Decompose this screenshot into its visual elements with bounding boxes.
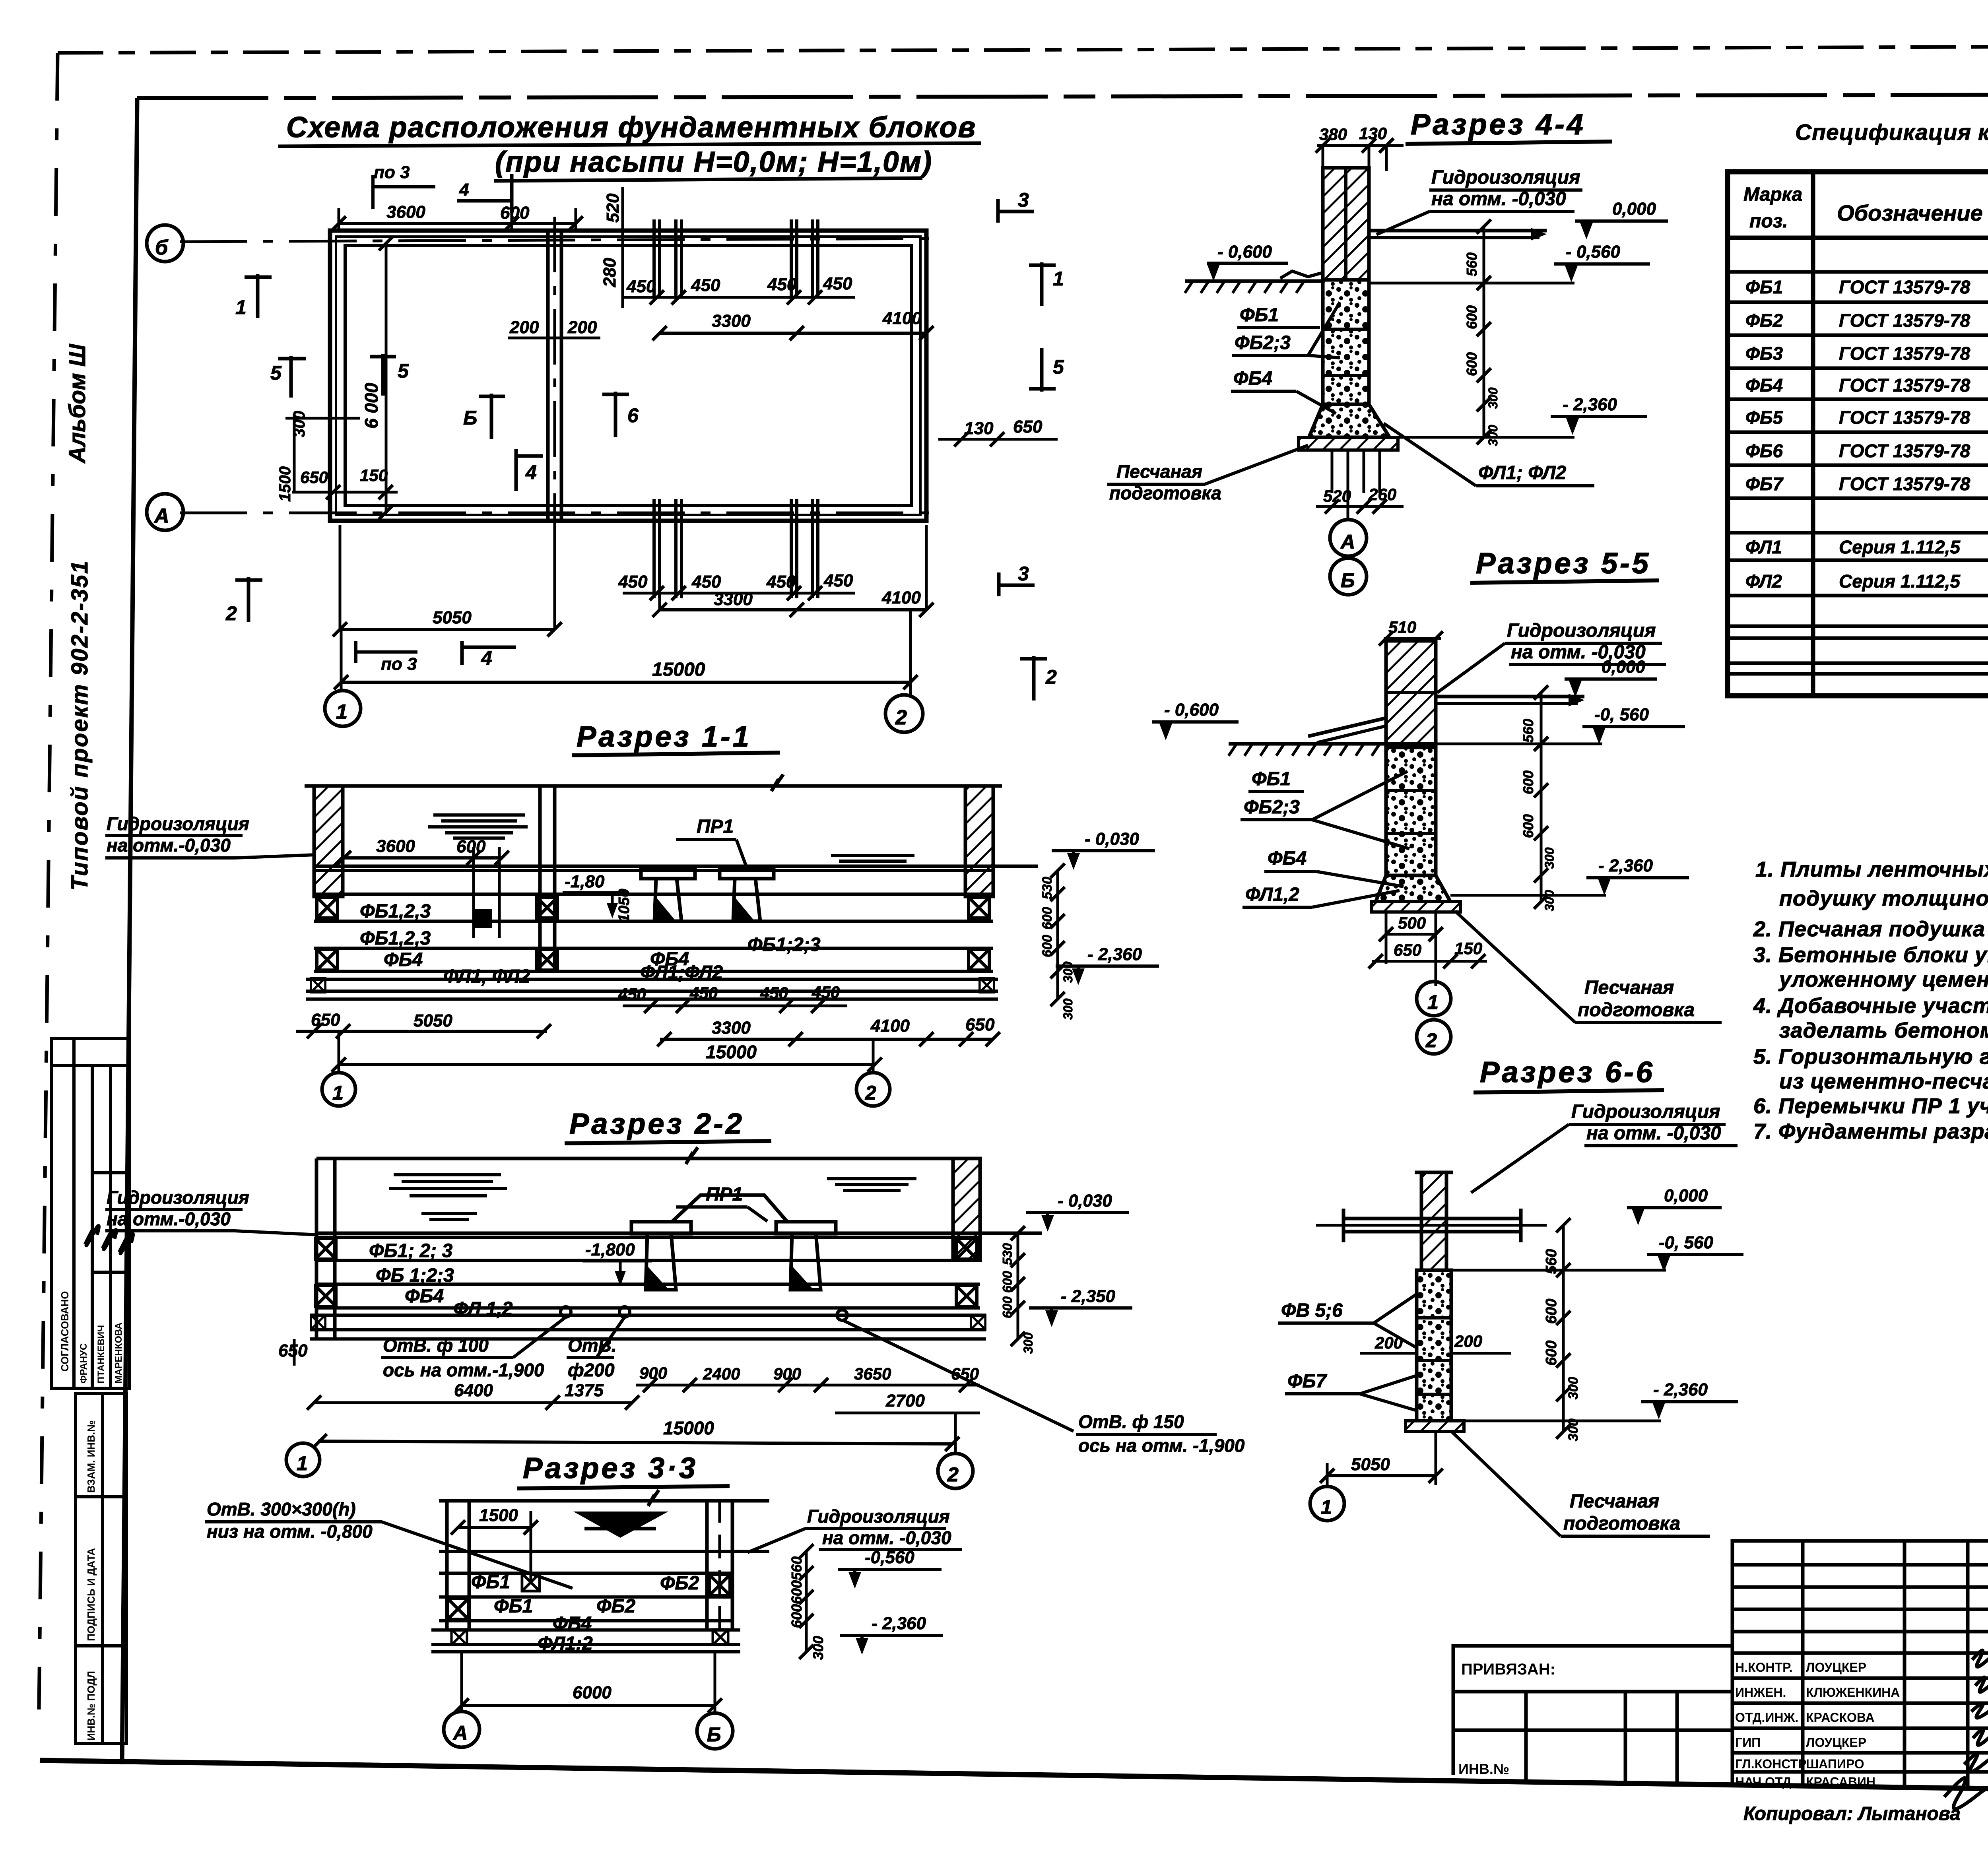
svg-text:450: 450 xyxy=(626,277,656,296)
svg-text:- 0,030: - 0,030 xyxy=(1085,829,1140,849)
svg-text:2: 2 xyxy=(895,706,909,729)
svg-text:ФЛ1;ФЛ2: ФЛ1;ФЛ2 xyxy=(640,962,723,983)
course lines xyxy=(431,1551,769,1652)
inner sheet frame top xyxy=(137,94,1988,98)
svg-text:ФБ1: ФБ1 xyxy=(494,1596,533,1617)
svg-text:ОтВ. 300×300(h): ОтВ. 300×300(h) xyxy=(207,1499,356,1519)
right dim chain xyxy=(1017,1233,1019,1339)
svg-text:520: 520 xyxy=(603,193,623,223)
svg-text:200: 200 xyxy=(567,318,597,337)
svg-text:ф200: ф200 xyxy=(568,1360,615,1380)
svg-text:3: 3 xyxy=(1018,563,1029,585)
plan axis circle 2 xyxy=(885,695,923,732)
svg-text:- 2,350: - 2,350 xyxy=(1061,1286,1116,1306)
svg-text:15000: 15000 xyxy=(663,1418,714,1438)
s11 top line xyxy=(305,784,1002,788)
svg-text:6000: 6000 xyxy=(573,1683,612,1702)
svg-text:ПОДПИСЬ И ДАТА: ПОДПИСЬ И ДАТА xyxy=(85,1548,97,1641)
s44 footing xyxy=(1309,404,1390,437)
svg-text:300: 300 xyxy=(1542,847,1557,869)
svg-text:4100: 4100 xyxy=(870,1016,910,1036)
svg-text:ФЛ2: ФЛ2 xyxy=(1745,571,1782,592)
right dim chain xyxy=(1056,871,1059,999)
svg-text:ПТАНКЕВИЧ: ПТАНКЕВИЧ xyxy=(96,1325,107,1383)
svg-text:Разрез 4-4: Разрез 4-4 xyxy=(1411,108,1586,141)
svg-text:ВЗАМ. ИНВ.№: ВЗАМ. ИНВ.№ xyxy=(85,1420,97,1493)
privyazan box xyxy=(1453,1646,1732,1783)
svg-text:300: 300 xyxy=(1542,890,1557,911)
svg-text:Серия 1.112,5: Серия 1.112,5 xyxy=(1839,571,1961,592)
svg-text:600: 600 xyxy=(1464,305,1480,329)
svg-text:по 3: по 3 xyxy=(381,654,417,674)
svg-text:ФБ4: ФБ4 xyxy=(553,1613,592,1634)
svg-text:1500: 1500 xyxy=(479,1506,518,1525)
svg-text:15000: 15000 xyxy=(706,1042,757,1062)
svg-text:450: 450 xyxy=(691,276,720,295)
pier 2 xyxy=(776,1222,836,1234)
svg-text:-1,800: -1,800 xyxy=(585,1240,635,1259)
svg-text:1375: 1375 xyxy=(565,1381,604,1400)
svg-text:на отм.-0,030: на отм.-0,030 xyxy=(107,1209,231,1229)
svg-text:500: 500 xyxy=(1398,914,1426,932)
svg-text:А: А xyxy=(452,1722,470,1744)
svg-text:6: 6 xyxy=(627,404,639,427)
dim 520 260 below xyxy=(1331,450,1334,493)
s44 sand prep xyxy=(1299,437,1398,450)
inner sheet frame left xyxy=(122,98,137,1764)
svg-text:ФБ4: ФБ4 xyxy=(1233,368,1272,389)
svg-text:ФБ1; 2; 3: ФБ1; 2; 3 xyxy=(369,1240,452,1261)
ground left with berm xyxy=(1229,742,1386,746)
svg-text:3: 3 xyxy=(1018,189,1029,211)
svg-text:530: 530 xyxy=(1000,1243,1015,1265)
svg-text:2700: 2700 xyxy=(885,1391,925,1411)
X markers xyxy=(522,1574,540,1591)
svg-text:300: 300 xyxy=(810,1636,826,1660)
s22 axis circle 1 xyxy=(286,1443,320,1477)
svg-text:200: 200 xyxy=(1454,1332,1482,1351)
svg-text:ФБ2;3: ФБ2;3 xyxy=(1244,797,1300,818)
svg-text:5050: 5050 xyxy=(414,1011,452,1030)
svg-text:0,000: 0,000 xyxy=(1612,199,1656,219)
svg-text:560: 560 xyxy=(1464,252,1480,276)
svg-text:ось на отм. -1,900: ось на отм. -1,900 xyxy=(1078,1435,1245,1456)
svg-text:Типовой проект 902-2-351: Типовой проект 902-2-351 xyxy=(67,560,93,891)
svg-text:СОГЛАСОВАНО: СОГЛАСОВАНО xyxy=(59,1291,71,1372)
svg-text:ФБ1,2,3: ФБ1,2,3 xyxy=(360,928,431,949)
svg-text:Разрез 3·3: Разрез 3·3 xyxy=(523,1451,698,1484)
svg-text:2: 2 xyxy=(1045,666,1057,688)
svg-text:НАЧ.ОТД.: НАЧ.ОТД. xyxy=(1735,1775,1795,1789)
svg-text:3. Бетонные блоки укладывать: 3. Бетонные блоки укладывать с перевязко… xyxy=(1753,943,1988,967)
svg-text:ФБ2: ФБ2 xyxy=(1745,310,1783,331)
slab right xyxy=(1436,695,1584,699)
svg-text:1: 1 xyxy=(235,296,247,318)
svg-text:3600: 3600 xyxy=(376,836,415,856)
svg-text:300: 300 xyxy=(1061,998,1075,1020)
s11 left wall hatched xyxy=(314,786,343,896)
svg-text:б: б xyxy=(155,236,170,259)
svg-text:ФЛ1; ФЛ2: ФЛ1; ФЛ2 xyxy=(1478,462,1567,483)
vertical dim chain xyxy=(1562,1225,1565,1432)
svg-text:Гидроизоляция: Гидроизоляция xyxy=(1571,1101,1720,1122)
s44 wall hatched xyxy=(1323,168,1369,280)
svg-text:ШАПИРО: ШАПИРО xyxy=(1806,1757,1864,1771)
svg-text:560: 560 xyxy=(1520,719,1536,743)
svg-text:600: 600 xyxy=(1040,907,1055,929)
svg-text:ГОСТ 13579-78: ГОСТ 13579-78 xyxy=(1839,277,1971,297)
svg-text:подготовка: подготовка xyxy=(1563,1513,1680,1534)
plan inner wall line xyxy=(345,246,911,506)
svg-text:Гидроизоляция: Гидроизоляция xyxy=(107,813,249,834)
svg-text:7. Фундаменты разработаны для: 7. Фундаменты разработаны для t° = -30 °… xyxy=(1753,1120,1988,1143)
svg-text:ФБ1: ФБ1 xyxy=(1252,768,1291,790)
signatures xyxy=(1944,1650,1988,1809)
svg-text:ФБ1,2,3: ФБ1,2,3 xyxy=(360,901,431,922)
svg-text:- 2,360: - 2,360 xyxy=(1563,395,1617,414)
svg-text:2: 2 xyxy=(865,1082,879,1104)
svg-text:КЛЮЖЕНКИНА: КЛЮЖЕНКИНА xyxy=(1806,1685,1900,1700)
svg-text:ФРАНУС: ФРАНУС xyxy=(78,1343,89,1383)
svg-text:450: 450 xyxy=(618,985,646,1003)
svg-text:4: 4 xyxy=(525,461,537,483)
svg-text:600: 600 xyxy=(1000,1271,1015,1293)
svg-text:ФБ4: ФБ4 xyxy=(1745,375,1783,396)
s11 right wall hatched xyxy=(965,786,993,896)
svg-text:ГОСТ 13579-78: ГОСТ 13579-78 xyxy=(1839,407,1971,428)
svg-text:650: 650 xyxy=(1394,941,1421,959)
svg-text:ПР1: ПР1 xyxy=(697,816,734,837)
right dim chain xyxy=(805,1551,808,1652)
svg-text:Б: Б xyxy=(707,1723,723,1746)
middle wall centerline xyxy=(553,217,556,537)
svg-text:450: 450 xyxy=(767,275,797,294)
s55 footing xyxy=(1376,875,1450,902)
svg-text:150: 150 xyxy=(360,466,388,485)
svg-text:650: 650 xyxy=(311,1010,340,1030)
svg-text:900: 900 xyxy=(773,1364,801,1383)
axis b centerline xyxy=(180,239,938,242)
svg-text:- 0,030: - 0,030 xyxy=(1058,1191,1112,1211)
pier hood xyxy=(672,1195,787,1222)
svg-text:450: 450 xyxy=(812,983,840,1001)
s55 sand xyxy=(1372,902,1460,912)
svg-text:3300: 3300 xyxy=(712,1018,751,1038)
svg-text:130: 130 xyxy=(964,419,994,438)
svg-text:ИНВ.№ ПОДЛ: ИНВ.№ ПОДЛ xyxy=(85,1671,97,1741)
plan outer wall xyxy=(330,231,926,521)
svg-text:560: 560 xyxy=(1543,1249,1560,1274)
svg-text:КРАСАВИН: КРАСАВИН xyxy=(1806,1775,1875,1789)
svg-text:Схема расположения фундаментн: Схема расположения фундаментных блоков xyxy=(286,111,976,144)
svg-text:Песчаная: Песчаная xyxy=(1570,1491,1659,1512)
vertical dim chain xyxy=(1483,227,1485,437)
s11 axis circle 2 xyxy=(856,1073,890,1106)
pier 1 xyxy=(631,1222,691,1234)
s55 axis circles xyxy=(1417,982,1451,1016)
svg-text:3300: 3300 xyxy=(714,590,753,609)
svg-text:Альбом Ш: Альбом Ш xyxy=(64,343,90,464)
s33 left wall xyxy=(445,1501,449,1630)
level line -0.030 xyxy=(314,865,1038,868)
svg-text:ГОСТ 13579-78: ГОСТ 13579-78 xyxy=(1839,343,1971,364)
plan middle wall xyxy=(546,231,550,521)
svg-text:450: 450 xyxy=(689,984,718,1002)
s66 wall hatched xyxy=(1415,1171,1453,1174)
svg-text:-1,80: -1,80 xyxy=(565,872,605,891)
svg-text:ФЛ1;2: ФЛ1;2 xyxy=(538,1633,593,1654)
svg-text:ЛОУЦКЕР: ЛОУЦКЕР xyxy=(1806,1660,1866,1675)
s55 blocks xyxy=(1386,747,1436,875)
svg-text:5: 5 xyxy=(398,360,409,382)
svg-text:6 000: 6 000 xyxy=(361,382,382,429)
svg-text:Копировал: Лытанова: Копировал: Лытанова xyxy=(1743,1803,1961,1824)
s66 sand xyxy=(1406,1421,1464,1432)
svg-text:из цементно-песчаного раствора: из цементно-песчаного раствора состава 1… xyxy=(1779,1069,1988,1093)
svg-text:- 0,600: - 0,600 xyxy=(1217,242,1272,262)
svg-text:ГЛ.КОНСТР: ГЛ.КОНСТР xyxy=(1735,1757,1806,1771)
svg-text:поз.: поз. xyxy=(1749,211,1788,232)
svg-text:ФБ2: ФБ2 xyxy=(596,1596,635,1617)
svg-text:1: 1 xyxy=(336,700,350,724)
svg-text:300: 300 xyxy=(1566,1377,1581,1399)
signature rows text xyxy=(1735,1660,1900,1789)
svg-text:3600: 3600 xyxy=(386,202,425,222)
svg-text:600: 600 xyxy=(1543,1341,1560,1366)
vertical dim chain xyxy=(1540,693,1543,902)
signature grid upper xyxy=(1732,1541,1988,1789)
svg-text:ФБ2: ФБ2 xyxy=(660,1573,699,1594)
svg-text:450: 450 xyxy=(823,274,852,293)
svg-text:Разрез 5-5: Разрез 5-5 xyxy=(1476,547,1651,580)
svg-text:ИНВ.№: ИНВ.№ xyxy=(1458,1761,1509,1777)
svg-text:1: 1 xyxy=(297,1452,310,1475)
ground line left xyxy=(1185,279,1323,283)
svg-text:600: 600 xyxy=(1520,770,1536,794)
svg-text:3300: 3300 xyxy=(712,311,751,331)
svg-text:650: 650 xyxy=(300,468,328,487)
svg-text:15000: 15000 xyxy=(652,659,705,680)
opening witness lines xyxy=(472,847,475,938)
svg-text:ФБ7: ФБ7 xyxy=(1287,1371,1327,1392)
svg-text:600: 600 xyxy=(1520,814,1536,838)
svg-text:ФБ7: ФБ7 xyxy=(1745,473,1784,494)
svg-text:Песчаная: Песчаная xyxy=(1584,977,1674,998)
svg-text:2: 2 xyxy=(1425,1029,1439,1052)
svg-text:2: 2 xyxy=(225,602,237,625)
svg-text:300: 300 xyxy=(1061,961,1075,983)
s66 axis circle 1 xyxy=(1310,1486,1344,1521)
svg-text:200: 200 xyxy=(509,318,539,337)
svg-text:- 0,560: - 0,560 xyxy=(1566,242,1621,262)
svg-text:на отм. -0,030: на отм. -0,030 xyxy=(822,1527,951,1548)
svg-text:0,000: 0,000 xyxy=(1602,657,1646,677)
svg-text:450: 450 xyxy=(691,572,721,592)
svg-text:5. Горизонтальную гидроизоляц: 5. Горизонтальную гидроизоляцию выполнят… xyxy=(1753,1045,1988,1069)
svg-text:Разрез 1-1: Разрез 1-1 xyxy=(577,720,751,753)
sidebar approval table xyxy=(52,1038,130,1388)
top wall block ticks xyxy=(654,219,818,298)
svg-text:ФЛ1, ФЛ2: ФЛ1, ФЛ2 xyxy=(443,966,530,987)
svg-text:КРАСКОВА: КРАСКОВА xyxy=(1806,1710,1875,1725)
svg-text:300: 300 xyxy=(1486,387,1500,409)
svg-text:ФБ1: ФБ1 xyxy=(1745,277,1783,297)
lintel PR1 right xyxy=(720,868,774,879)
svg-text:ось на отм.-1,900: ось на отм.-1,900 xyxy=(383,1360,544,1380)
svg-text:ФБ4: ФБ4 xyxy=(1268,848,1307,869)
svg-text:ФБ 1;2;3: ФБ 1;2;3 xyxy=(376,1265,454,1286)
svg-text:ФВ 5;6: ФВ 5;6 xyxy=(1281,1300,1343,1321)
svg-text:600: 600 xyxy=(1543,1299,1560,1324)
svg-text:А: А xyxy=(1340,531,1357,553)
svg-text:150: 150 xyxy=(1454,939,1482,958)
svg-text:4: 4 xyxy=(481,647,492,669)
svg-text:ПРИВЯЗАН:: ПРИВЯЗАН: xyxy=(1461,1661,1555,1678)
svg-text:ИНЖЕН.: ИНЖЕН. xyxy=(1735,1685,1786,1700)
floor slab beams xyxy=(1343,1217,1521,1220)
svg-text:600: 600 xyxy=(788,1604,805,1628)
svg-text:300: 300 xyxy=(1486,425,1500,446)
svg-text:Разрез 2-2: Разрез 2-2 xyxy=(569,1107,744,1140)
svg-text:450: 450 xyxy=(760,984,788,1002)
svg-text:0,000: 0,000 xyxy=(1664,1186,1708,1205)
svg-text:ГОСТ 13579-78: ГОСТ 13579-78 xyxy=(1839,440,1971,461)
svg-text:ФБ4: ФБ4 xyxy=(405,1286,444,1307)
svg-text:600: 600 xyxy=(1464,352,1480,376)
svg-text:ФБ1: ФБ1 xyxy=(1240,305,1279,326)
svg-text:1: 1 xyxy=(1427,991,1441,1013)
svg-text:ФБ2;3: ФБ2;3 xyxy=(1235,332,1291,353)
axis A centerline xyxy=(180,512,938,514)
s55 wall hatched xyxy=(1386,641,1436,744)
svg-text:900: 900 xyxy=(639,1364,667,1382)
spec table grid xyxy=(1728,172,1988,696)
svg-text:ФБ6: ФБ6 xyxy=(1745,440,1783,461)
svg-text:300: 300 xyxy=(1021,1332,1035,1354)
svg-text:Б: Б xyxy=(1341,569,1357,592)
svg-text:подушку толщиной 100 мм.: подушку толщиной 100 мм. xyxy=(1779,887,1988,910)
slab right of wall xyxy=(1369,229,1547,233)
svg-text:6. Перемычки ПР 1 учтены на: 6. Перемычки ПР 1 учтены на листе 5. xyxy=(1753,1094,1988,1118)
svg-text:ФЛ1,2: ФЛ1,2 xyxy=(1245,884,1299,905)
svg-text:ГОСТ 13579-78: ГОСТ 13579-78 xyxy=(1839,375,1971,396)
s33 axis circle A xyxy=(444,1711,480,1747)
s33 right wall xyxy=(705,1501,709,1630)
s11 middle wall xyxy=(538,786,542,973)
svg-text:ГОСТ 13579-78: ГОСТ 13579-78 xyxy=(1839,310,1971,331)
svg-text:ОТД.ИНЖ.: ОТД.ИНЖ. xyxy=(1735,1710,1798,1725)
svg-text:1500: 1500 xyxy=(276,466,294,502)
svg-text:2400: 2400 xyxy=(703,1364,740,1383)
water hatch left xyxy=(428,815,528,838)
svg-text:6400: 6400 xyxy=(454,1381,493,1400)
svg-text:650: 650 xyxy=(965,1015,995,1034)
s22 top line xyxy=(316,1157,978,1160)
water hatch left xyxy=(389,1175,507,1220)
svg-text:4: 4 xyxy=(459,180,469,200)
svg-text:по 3: по 3 xyxy=(374,163,410,182)
svg-text:подготовка: подготовка xyxy=(1578,999,1695,1021)
svg-text:5050: 5050 xyxy=(1351,1455,1390,1474)
water hatch right xyxy=(827,1179,916,1191)
svg-text:Гидроизоляция: Гидроизоляция xyxy=(1507,620,1656,641)
axis circle A xyxy=(147,494,183,530)
s44 foundation blocks xyxy=(1323,280,1369,404)
svg-text:- 2,360: - 2,360 xyxy=(872,1614,926,1633)
svg-text:- 2,360: - 2,360 xyxy=(1598,856,1653,875)
svg-text:5: 5 xyxy=(1053,356,1064,378)
svg-text:600: 600 xyxy=(1000,1296,1015,1318)
svg-text:5: 5 xyxy=(270,362,282,384)
svg-text:Разрез 6-6: Разрез 6-6 xyxy=(1480,1056,1655,1089)
svg-text:2. Песчаная подушка на разреза: 2. Песчаная подушка на разрезах 1-1 ÷ 3-… xyxy=(1753,917,1988,941)
svg-text:- 2,360: - 2,360 xyxy=(1087,945,1142,964)
svg-text:280: 280 xyxy=(600,258,619,287)
svg-text:3650: 3650 xyxy=(854,1364,891,1383)
svg-text:1. Плиты ленточных фундаментов: 1. Плиты ленточных фундаментов укладыват… xyxy=(1755,858,1988,881)
course lines xyxy=(310,1260,986,1339)
level line -0.030 xyxy=(316,1232,1042,1235)
svg-text:МАРЕНКОВА: МАРЕНКОВА xyxy=(113,1323,124,1383)
svg-text:заделать бетоном М 100.: заделать бетоном М 100. xyxy=(1779,1019,1988,1042)
svg-text:-0,560: -0,560 xyxy=(865,1548,914,1567)
svg-text:450: 450 xyxy=(618,572,648,592)
svg-text:низ на отм. -0,800: низ на отм. -0,800 xyxy=(207,1521,373,1542)
table rows xyxy=(1745,276,1988,592)
svg-text:600: 600 xyxy=(788,1580,805,1604)
svg-text:Спецификация к схеме расположе: Спецификация к схеме расположения фундам… xyxy=(1795,120,1988,145)
svg-text:300: 300 xyxy=(1566,1418,1581,1441)
svg-text:-0, 560: -0, 560 xyxy=(1659,1233,1714,1252)
outer dashed sheet frame xyxy=(58,45,1988,53)
svg-text:ГОСТ 13579-78: ГОСТ 13579-78 xyxy=(1839,473,1971,494)
axis circle b xyxy=(147,225,183,262)
s44 axis circles xyxy=(1347,450,1349,519)
svg-text:1050: 1050 xyxy=(616,889,633,922)
svg-text:- 0,600: - 0,600 xyxy=(1164,700,1219,720)
svg-text:1: 1 xyxy=(1321,1496,1334,1518)
water symbol dark triangle xyxy=(573,1512,668,1538)
svg-text:4. Добавочные участки фундам: 4. Добавочные участки фундаментов и шпон… xyxy=(1753,994,1988,1018)
sheet frame bottom xyxy=(40,1760,1988,1797)
svg-text:600: 600 xyxy=(456,837,486,856)
svg-text:650: 650 xyxy=(951,1364,979,1383)
s11 axis circle 1 xyxy=(322,1073,355,1106)
s22 left wall xyxy=(315,1158,318,1339)
svg-text:уложенному цементному раствору: уложенному цементному раствору М 50. xyxy=(1778,968,1988,992)
svg-text:ФБ4: ФБ4 xyxy=(384,949,423,970)
svg-text:5050: 5050 xyxy=(433,608,472,627)
svg-text:Марка: Марка xyxy=(1743,184,1802,205)
s33 top line xyxy=(439,1499,769,1503)
svg-text:ФБ5: ФБ5 xyxy=(1745,407,1783,428)
svg-text:2: 2 xyxy=(947,1463,961,1486)
leader dots xyxy=(561,1307,571,1317)
svg-text:ФБ1: ФБ1 xyxy=(471,1572,510,1593)
X markers xyxy=(317,897,338,918)
svg-text:Песчаная: Песчаная xyxy=(1116,461,1202,482)
svg-text:ЛОУЦКЕР: ЛОУЦКЕР xyxy=(1806,1735,1866,1750)
svg-text:ФБ1;2;3: ФБ1;2;3 xyxy=(747,934,821,955)
course lines xyxy=(306,894,998,999)
s22 right wall hatched xyxy=(953,1158,980,1260)
svg-text:А: А xyxy=(153,504,172,528)
svg-text:ФЛ1: ФЛ1 xyxy=(1745,537,1782,557)
svg-text:380: 380 xyxy=(1319,125,1347,144)
svg-text:1: 1 xyxy=(332,1082,346,1104)
s66 blocks xyxy=(1417,1270,1451,1421)
svg-text:ФЛ 1,2: ФЛ 1,2 xyxy=(453,1298,513,1319)
